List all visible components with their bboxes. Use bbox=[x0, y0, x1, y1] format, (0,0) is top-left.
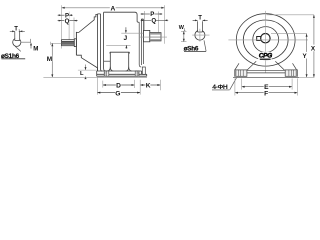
extension line rear boss end bbox=[158, 12, 160, 33]
front view vertical centerline bbox=[265, 11, 267, 73]
input detail key flat extension line bbox=[21, 41, 31, 43]
foot top extension line bbox=[78, 69, 97, 71]
label phi S h6 bbox=[184, 40, 207, 52]
label phi S1 h6 bbox=[1, 46, 25, 59]
rear foot box bbox=[142, 67, 145, 74]
front view horizontal centerline bbox=[228, 39, 308, 41]
bottom extension ticks front view bbox=[235, 79, 298, 96]
dimension T bbox=[193, 15, 208, 21]
motor body bottom legs bbox=[107, 52, 132, 71]
extension line shaft end bbox=[61, 5, 63, 48]
housing bottom step and taper bbox=[76, 55, 97, 71]
dimension M (input detail) bbox=[30, 43, 38, 53]
base slab bbox=[97, 71, 147, 76]
extension line key end bbox=[68, 12, 70, 41]
dimension T1 bbox=[10, 27, 25, 34]
dimension G bbox=[97, 89, 140, 98]
svg-text:Q: Q bbox=[151, 18, 156, 25]
svg-text:D: D bbox=[116, 82, 121, 89]
svg-text:M: M bbox=[47, 56, 52, 63]
svg-text:J: J bbox=[124, 35, 128, 42]
output shaft bbox=[62, 40, 75, 46]
motor centerline bbox=[140, 36, 167, 38]
output detail keyway slot bbox=[198, 21, 203, 32]
output shaft section detail circle bbox=[195, 29, 205, 40]
ground extension right bbox=[299, 76, 314, 78]
extension line rear stub end bbox=[164, 5, 166, 44]
gearbox housing front face bbox=[75, 32, 77, 55]
front view outer housing ellipse bbox=[236, 14, 295, 66]
dimension X bbox=[267, 15, 316, 77]
input detail keyway slot bbox=[15, 32, 20, 41]
input shaft section detail circle bbox=[13, 38, 21, 47]
ground line under slab bbox=[97, 76, 147, 78]
output detail centerlines bbox=[192, 29, 209, 42]
dimension P left bbox=[58, 12, 73, 19]
dimension A bbox=[62, 4, 165, 12]
label 4-phi H bbox=[212, 78, 236, 91]
svg-text:K: K bbox=[146, 82, 151, 89]
CPG logo bbox=[258, 52, 272, 60]
svg-text:F: F bbox=[264, 91, 268, 98]
ground extension line bbox=[43, 76, 96, 78]
dimension Q right bbox=[141, 17, 169, 24]
front view ground line bbox=[233, 76, 299, 78]
dimension Y bbox=[271, 34, 308, 78]
extension line shoulder bbox=[73, 18, 75, 39]
dimension E bbox=[242, 83, 293, 91]
flange ring lines bbox=[98, 12, 106, 71]
housing top step and taper bbox=[76, 14, 97, 32]
output centerline bbox=[51, 42, 62, 44]
dimension F bbox=[235, 89, 298, 98]
dimension L (foot pad) bbox=[80, 65, 87, 80]
svg-text:T: T bbox=[198, 15, 202, 21]
dimension W1 (rear stub) bbox=[179, 25, 187, 42]
dimension Q left bbox=[58, 18, 78, 25]
front view shaft circle bbox=[261, 34, 270, 43]
front view keyway bbox=[257, 37, 261, 41]
svg-text:L: L bbox=[80, 71, 84, 77]
rear boss bbox=[144, 30, 150, 41]
centerline end tick bbox=[50, 42, 52, 45]
rear foot pad bbox=[135, 71, 139, 76]
shaft shoulder bbox=[74, 39, 76, 47]
front view motor body ellipse bbox=[243, 20, 288, 60]
dimension M (main, shaft height) bbox=[46, 43, 53, 77]
dimension J bbox=[106, 27, 143, 48]
dimension P right bbox=[141, 11, 163, 18]
front view left foot pad bbox=[235, 70, 247, 76]
svg-text:Q: Q bbox=[65, 18, 70, 25]
bottom extension ticks left view bbox=[97, 78, 160, 95]
dimension D bbox=[103, 81, 135, 89]
adapter ring bottom line bbox=[104, 60, 111, 62]
front view right gussets bbox=[275, 61, 296, 70]
rear stub shaft bbox=[150, 33, 161, 41]
input detail tick bbox=[30, 39, 32, 43]
svg-text:A: A bbox=[111, 5, 116, 12]
front view left gussets bbox=[235, 61, 256, 70]
front view boss circle bbox=[253, 27, 279, 53]
front view right foot pad bbox=[285, 70, 297, 76]
front foot pad bbox=[104, 71, 109, 76]
front view web lines bbox=[247, 70, 285, 73]
svg-text:M: M bbox=[33, 45, 38, 52]
dimension K bbox=[140, 81, 160, 89]
motor body bbox=[104, 12, 140, 53]
rear flange bbox=[139, 19, 143, 67]
extension line motor rear face bbox=[143, 11, 145, 30]
svg-text:G: G bbox=[115, 91, 120, 98]
